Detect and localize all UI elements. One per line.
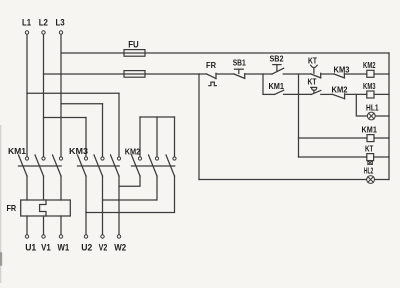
svg-text:KM2: KM2 (363, 60, 376, 70)
svg-text:KM2: KM2 (332, 84, 348, 94)
svg-text:U2: U2 (81, 242, 92, 252)
svg-text:FR: FR (206, 61, 216, 70)
svg-text:KT: KT (365, 144, 374, 154)
svg-text:KM3: KM3 (69, 146, 88, 156)
svg-text:V1: V1 (41, 242, 51, 252)
svg-text:V2: V2 (99, 242, 108, 252)
svg-text:FR: FR (6, 203, 16, 213)
svg-text:W2: W2 (114, 242, 126, 252)
svg-text:SB2: SB2 (270, 53, 284, 63)
svg-text:L2: L2 (39, 18, 48, 29)
svg-text:KM1: KM1 (8, 146, 26, 156)
svg-text:KM2: KM2 (125, 147, 141, 157)
svg-text:KM3: KM3 (363, 81, 376, 91)
svg-text:U1: U1 (25, 242, 36, 252)
svg-text:KT: KT (308, 55, 318, 65)
svg-text:KM1: KM1 (268, 81, 284, 91)
svg-text:KT: KT (308, 77, 318, 87)
svg-text:FU: FU (128, 40, 139, 51)
svg-text:KM1: KM1 (362, 125, 378, 135)
svg-text:KM3: KM3 (334, 64, 350, 74)
svg-text:L1: L1 (22, 18, 32, 29)
svg-text:SB1: SB1 (233, 58, 246, 68)
svg-text:HL2: HL2 (364, 165, 374, 175)
svg-text:W1: W1 (58, 242, 70, 252)
svg-text:L3: L3 (56, 18, 65, 29)
svg-text:HL1: HL1 (366, 103, 379, 113)
